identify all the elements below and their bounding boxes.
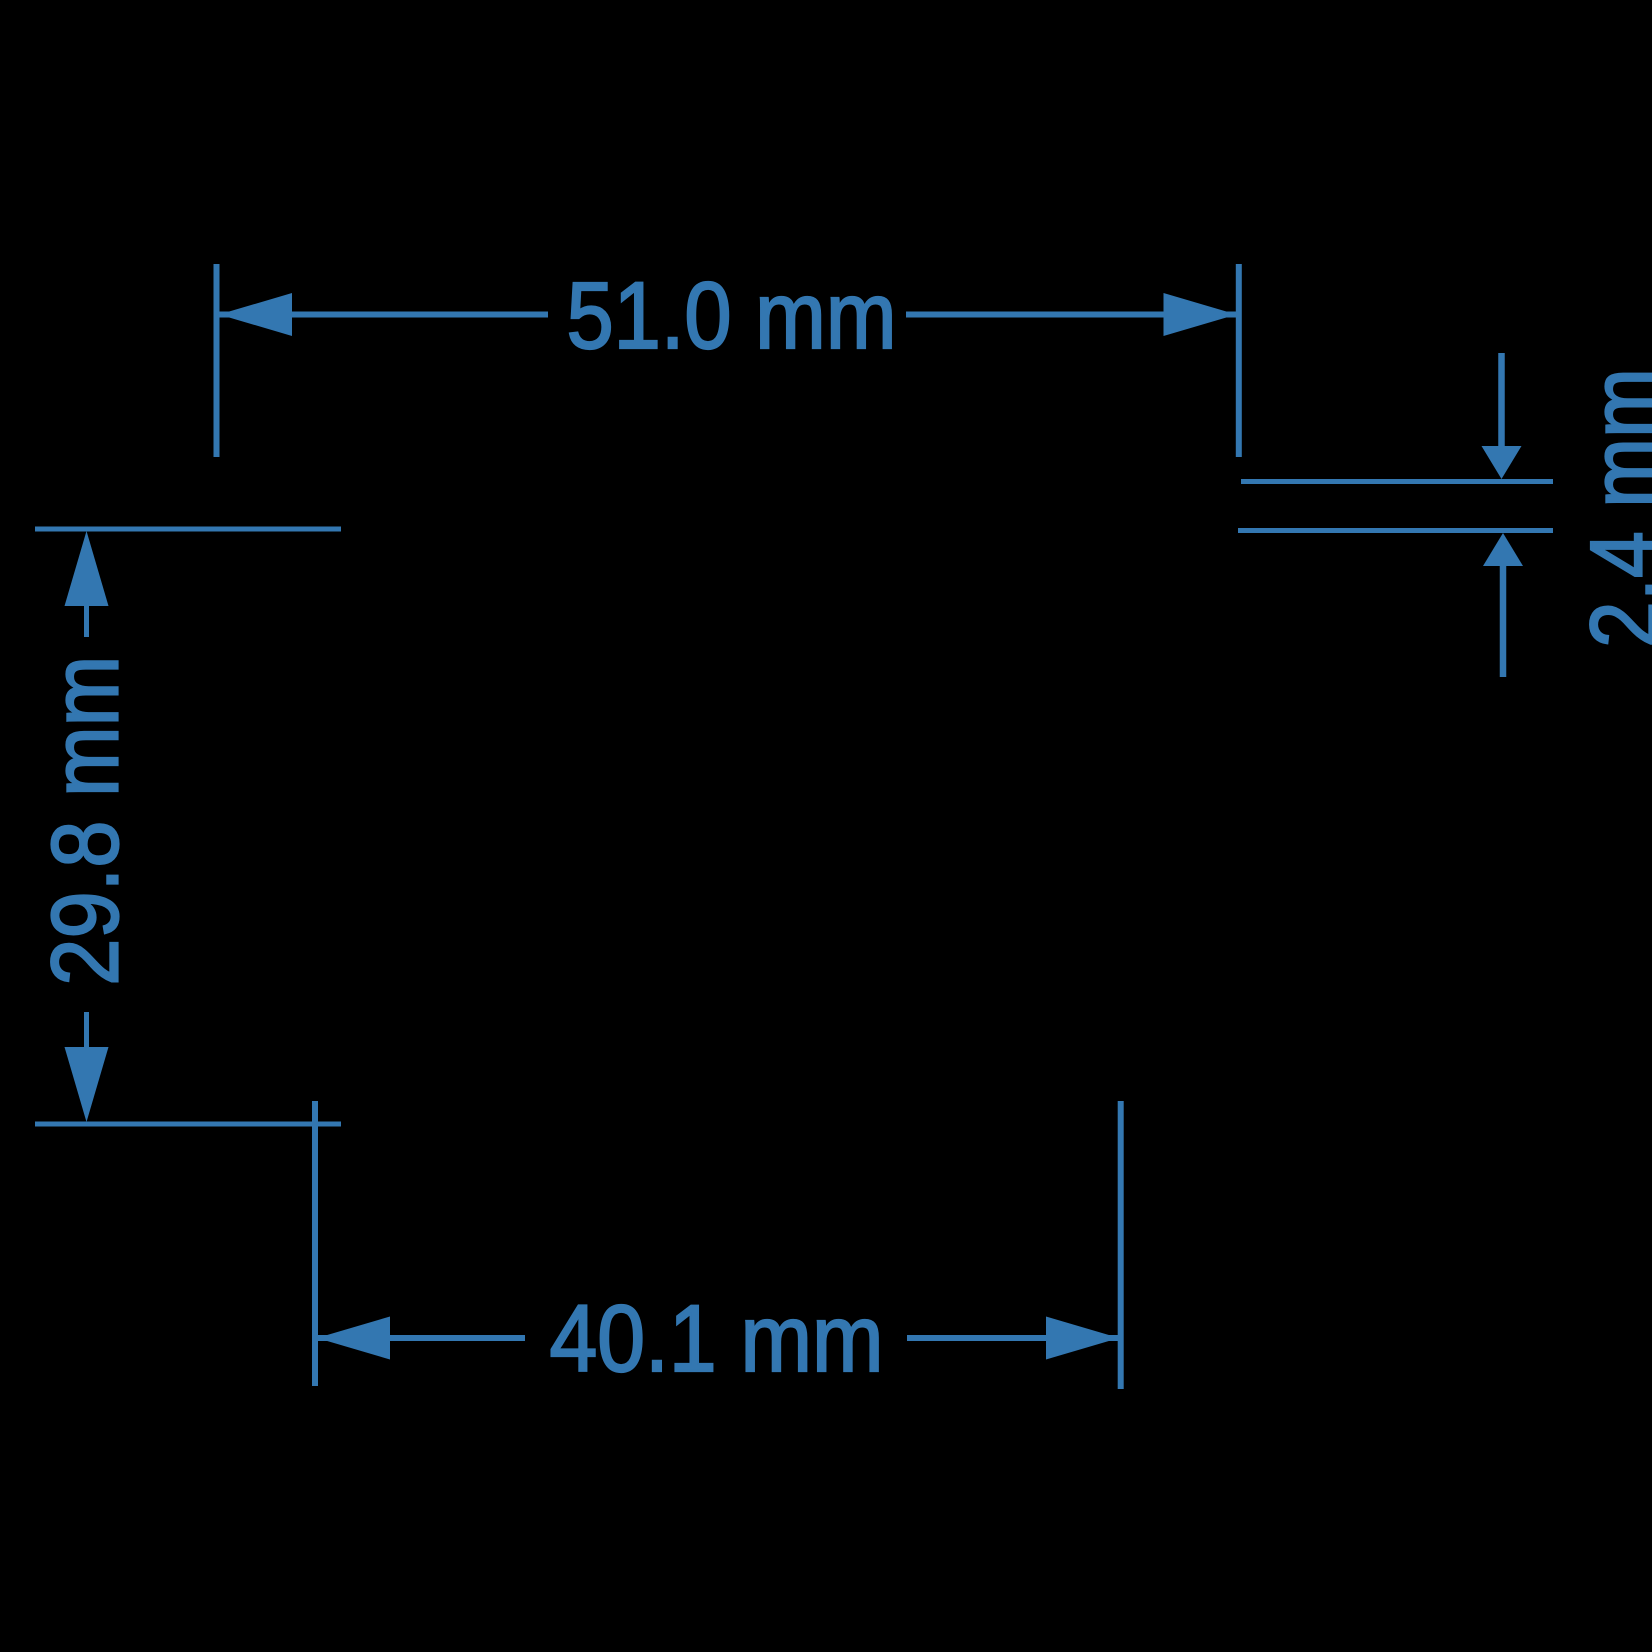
dimension 40.1 mm: right arrowhead: [1046, 1317, 1119, 1360]
dimension 51.0 mm: left arrowhead: [219, 293, 292, 336]
dimension 2.4 mm: lower arrow stem: [1500, 563, 1507, 677]
dimension 40.1 mm: right extension line: [1118, 1101, 1124, 1389]
svg-text:2.4 mm: 2.4 mm: [1572, 368, 1652, 648]
dimension 51.0 mm: right extension line: [1236, 264, 1242, 457]
dimension 51.0 mm: right dimension line segment: [906, 312, 1236, 318]
dimension 29.8 mm: top extension line: [35, 527, 341, 532]
dimension 29.8 mm: up arrowhead: [65, 531, 109, 606]
dimension 2.4 mm: down arrowhead: [1482, 446, 1522, 479]
dimension 2.4 mm: upper arrow stem: [1498, 353, 1505, 450]
svg-text:51.0 mm: 51.0 mm: [567, 263, 897, 369]
svg-text:40.1 mm: 40.1 mm: [550, 1286, 884, 1392]
dimension 29.8 mm: down arrowhead: [65, 1047, 109, 1122]
dimension 29.8 mm: bottom extension line: [35, 1122, 341, 1127]
dimension 2.4 mm: upper edge line: [1241, 479, 1553, 484]
dimension 51.0 mm: left dimension line segment: [219, 312, 548, 318]
dimension 29.8 mm: lower dimension line segment: [84, 1012, 89, 1049]
dimension 2.4 mm: lower edge line: [1238, 528, 1553, 533]
dimension 40.1 mm: left arrowhead: [317, 1317, 390, 1360]
dimension 2.4 mm: up arrowhead: [1483, 533, 1523, 566]
svg-text:29.8 mm: 29.8 mm: [32, 656, 138, 986]
dimension 40.1 mm: right dimension line segment: [907, 1335, 1118, 1341]
dimension 40.1 mm: left dimension line segment: [317, 1335, 525, 1341]
dimension 51.0 mm: left extension line: [214, 264, 220, 457]
dimension 51.0 mm: right arrowhead: [1164, 293, 1237, 336]
dimension 40.1 mm: left extension line: [312, 1101, 318, 1386]
dimension 29.8 mm: upper dimension line segment: [84, 604, 89, 637]
